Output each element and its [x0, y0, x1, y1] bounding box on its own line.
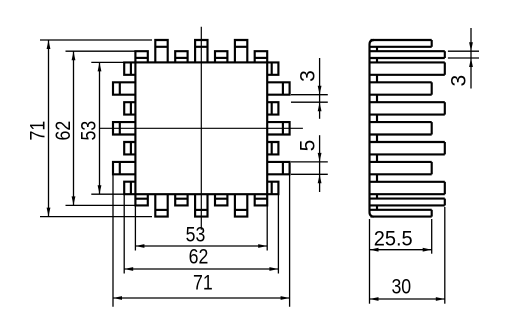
- side view fin F row4-T: [371, 122, 432, 134]
- side view bend 2: [376, 58, 378, 62]
- svg-text:30: 30: [391, 276, 411, 299]
- dimension 62 left: [52, 51, 135, 205]
- side view spine: [370, 40, 375, 217]
- front tooth bottom-6 (T): [235, 194, 247, 216]
- front tooth top-3 (S): [175, 51, 187, 62]
- dimension 53 left: [78, 62, 124, 194]
- front tooth left-6 (T): [113, 162, 135, 174]
- front tooth bottom-3 (S): [175, 194, 187, 205]
- front tooth bottom-2 (T): [155, 194, 167, 216]
- svg-text:25.5: 25.5: [374, 228, 413, 251]
- svg-text:53: 53: [78, 121, 101, 141]
- front tooth bottom-7 (S): [255, 194, 268, 205]
- side view fin E row3-S: [371, 102, 445, 114]
- side view bend 1: [376, 47, 378, 51]
- svg-text:5: 5: [296, 140, 319, 152]
- side view bend 7: [376, 154, 378, 162]
- front tooth right-3 (S): [267, 102, 278, 114]
- side view fin G row5-S: [371, 142, 445, 154]
- svg-text:62: 62: [52, 121, 75, 141]
- dimension 71 bottom: [113, 174, 290, 306]
- dimension 3 right: [291, 58, 328, 119]
- svg-text:71: 71: [27, 121, 50, 141]
- front tooth top-5 (S): [215, 51, 227, 62]
- front tooth top-4 (T): [195, 40, 207, 62]
- front tooth bottom-4 (T): [195, 194, 207, 216]
- front tooth right-5 (S): [267, 142, 278, 154]
- front tooth right-2 (T): [267, 82, 289, 94]
- dimension 53 bottom: [135, 194, 267, 250]
- side view fin C row1-S: [371, 62, 445, 74]
- front tooth left-4 (T): [113, 122, 135, 134]
- side view bend 4: [376, 95, 378, 103]
- front tooth top-7 (S): [255, 51, 268, 62]
- side view bend 3: [376, 75, 378, 83]
- svg-text:62: 62: [189, 246, 209, 269]
- side view bend 5: [376, 115, 378, 123]
- side view bend 6: [376, 135, 378, 143]
- front tooth left-5 (S): [124, 142, 135, 154]
- side view bend 10: [376, 205, 378, 209]
- front tooth left-3 (S): [124, 102, 135, 114]
- dimension 25.5 side: [370, 219, 432, 254]
- dimension 3 side: [448, 28, 480, 89]
- front tooth top-1 (S): [135, 51, 147, 62]
- svg-text:3: 3: [448, 75, 471, 87]
- front tooth top-6 (T): [235, 40, 247, 62]
- front horizontal centerline: [100, 127, 303, 129]
- side view fin K bottom-T fins: [371, 210, 432, 217]
- side view fin I row7-S: [371, 182, 445, 194]
- svg-text:3: 3: [297, 70, 320, 82]
- side view fin D row2-T: [371, 82, 432, 94]
- dimension 71 left: [27, 40, 152, 217]
- front tooth right-7 (S): [267, 182, 278, 195]
- dimension 5 right: [291, 135, 328, 192]
- svg-text:71: 71: [193, 272, 213, 295]
- front vertical centerline: [200, 27, 202, 230]
- front tooth right-1 (S): [267, 62, 278, 74]
- front tooth bottom-1 (S): [135, 194, 147, 205]
- side view fin B top-S fins: [371, 51, 445, 58]
- front tooth right-4 (T): [267, 122, 289, 134]
- side view fin J bottom-S fins: [371, 199, 445, 206]
- side view bend 8: [376, 174, 378, 182]
- dimension 62 bottom: [124, 182, 278, 274]
- front tooth bottom-5 (S): [215, 194, 227, 205]
- dimension 30 side: [370, 207, 445, 304]
- front tooth left-7 (S): [124, 182, 135, 195]
- front tooth left-1 (S): [124, 62, 135, 74]
- front view body 53x53: [135, 62, 267, 194]
- front tooth top-2 (T): [155, 40, 167, 62]
- side view fin A top-T fins: [371, 40, 432, 47]
- svg-text:53: 53: [186, 224, 206, 247]
- front tooth right-6 (T): [267, 162, 289, 174]
- side view bend 9: [376, 194, 378, 198]
- side view fin H row6-T: [371, 162, 432, 174]
- front tooth left-2 (T): [113, 82, 135, 94]
